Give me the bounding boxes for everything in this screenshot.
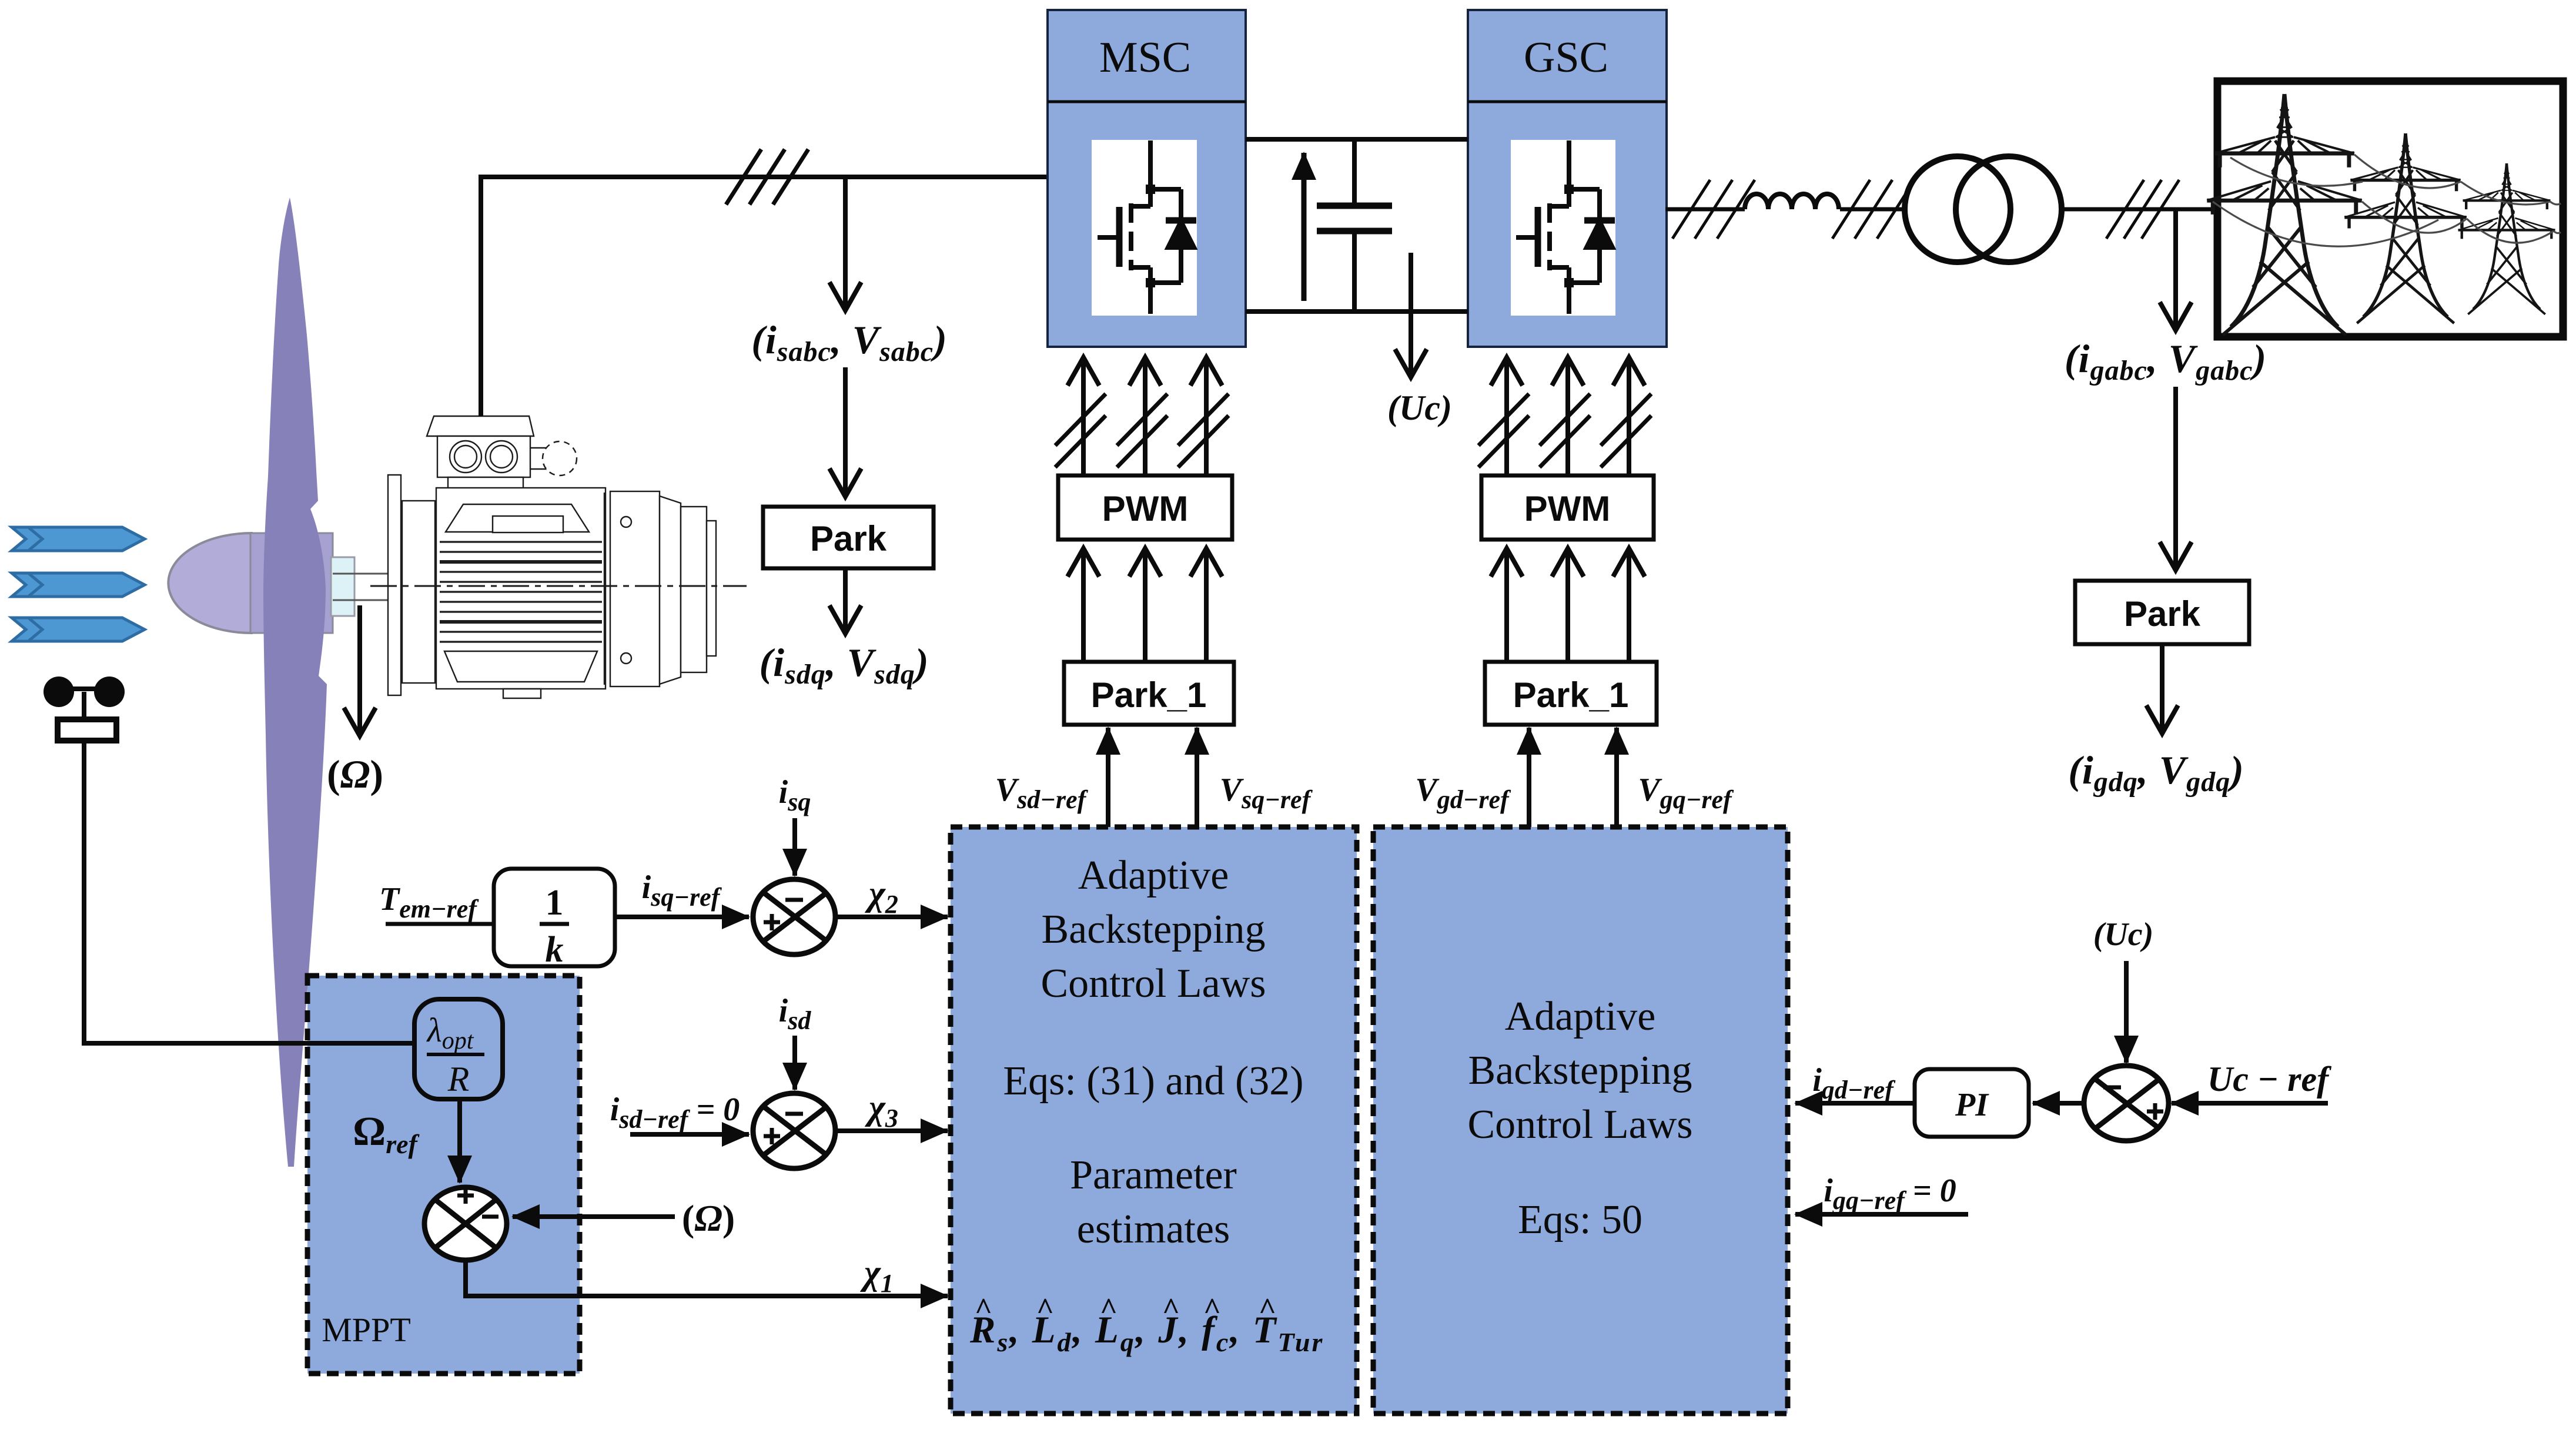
wire chi1: [466, 1260, 948, 1296]
svg-text:Vgq−ref: Vgq−ref: [1638, 772, 1734, 814]
GSC converter block: [1468, 10, 1667, 347]
grid pylon 3: [2458, 163, 2555, 314]
MSC converter block: [1048, 10, 1246, 347]
svg-text:MPPT: MPPT: [322, 1311, 411, 1349]
svg-text:^: ^: [1036, 1292, 1054, 1326]
hub: [250, 533, 333, 633]
lambda/R block: [414, 999, 503, 1099]
wire omega to sum: [513, 1214, 675, 1219]
svg-text:1: 1: [546, 883, 564, 923]
wire Uc to sum: [2124, 961, 2129, 1063]
wire Park down: [843, 568, 848, 634]
Vsq-ref line: [1195, 728, 1199, 827]
gate arrows GSC: [1478, 357, 1651, 475]
Park_1 to PWM arrows MSC: [1083, 548, 1206, 662]
slash marks a: [1672, 180, 1755, 239]
Park box (stator): [763, 507, 934, 568]
wire PI to box: [1795, 1101, 1915, 1106]
Vgd-ref line: [1527, 728, 1531, 827]
line inductor: [1745, 194, 1839, 209]
svg-text:estimates: estimates: [1077, 1207, 1230, 1252]
shaft block: [331, 557, 354, 616]
sum junction chi2: [753, 879, 835, 955]
anemometer: [44, 677, 125, 741]
ABC machine-side dashed box: [951, 827, 1357, 1414]
svg-text:Vsd−ref: Vsd−ref: [995, 772, 1089, 814]
generator G1: [370, 416, 747, 698]
svg-text:^: ^: [975, 1292, 992, 1326]
svg-text:^: ^: [1162, 1292, 1180, 1326]
wire isd to sum: [792, 1036, 797, 1090]
DC bus bottom rail: [1246, 309, 1468, 314]
svg-text:k: k: [546, 930, 564, 970]
svg-text:χ2: χ2: [865, 874, 898, 919]
MPPT dashed box: [307, 976, 580, 1374]
svg-text:(igdq, Vgdq): (igdq, Vgdq): [2068, 748, 2244, 798]
svg-text:Control Laws: Control Laws: [1467, 1102, 1692, 1147]
svg-text:igd−ref: igd−ref: [1812, 1062, 1896, 1104]
DC bus top rail: [1246, 137, 1468, 142]
PI block: [1915, 1069, 2029, 1137]
Park_1 box GSC: [1485, 662, 1657, 725]
Park_1 to PWM arrows GSC: [1507, 548, 1629, 662]
sum junction chi3: [753, 1093, 835, 1168]
ABC grid-side dashed box: [1373, 827, 1788, 1414]
wire sum to PI: [2033, 1101, 2083, 1106]
transformer: [1905, 156, 2010, 262]
svg-text:(Uc): (Uc): [2093, 916, 2154, 953]
wind arrow 2: [12, 573, 145, 597]
svg-text:Park_1: Park_1: [1091, 675, 1207, 715]
wire isq to sum: [792, 818, 797, 876]
svg-text:(igabc, Vgabc): (igabc, Vgabc): [2065, 336, 2267, 386]
svg-text:PWM: PWM: [1524, 489, 1611, 528]
turbine blade: [263, 197, 327, 1167]
sum junction MPPT: [424, 1187, 507, 1260]
svg-text:GSC: GSC: [1524, 34, 1608, 82]
catenary wires: [2213, 155, 2561, 246]
wire chi2 out: [835, 915, 948, 919]
svg-text:Backstepping: Backstepping: [1041, 907, 1265, 952]
svg-text:MSC: MSC: [1099, 34, 1191, 82]
svg-text:igq−ref = 0: igq−ref = 0: [1824, 1173, 1956, 1215]
wire anemometer to MPPT: [84, 741, 414, 1043]
svg-text:Uc − ref: Uc − ref: [2207, 1060, 2331, 1099]
wire Tem-ref: [386, 922, 494, 926]
wire Uc-ref to sum: [2172, 1101, 2328, 1106]
svg-text:(isdq, Vsdq): (isdq, Vsdq): [760, 640, 929, 690]
IGBT GSC: [1516, 140, 1615, 314]
svg-text:^: ^: [1100, 1292, 1118, 1326]
grid pylon 2: [2344, 133, 2466, 323]
svg-text:(Ω): (Ω): [327, 752, 383, 796]
svg-text:R: R: [447, 1060, 470, 1099]
svg-text:Parameter: Parameter: [1070, 1153, 1237, 1198]
wire to Park grid: [2173, 387, 2178, 570]
stator wire: [481, 177, 1048, 416]
grid tap arrow: [2173, 209, 2178, 330]
DC voltage up arrow: [1302, 153, 1307, 301]
Park_1 box MSC: [1064, 662, 1234, 725]
wire isq-ref to sum: [615, 915, 749, 919]
svg-text:Backstepping: Backstepping: [1468, 1048, 1692, 1093]
svg-text:(Ω): (Ω): [682, 1197, 735, 1239]
svg-text:Tem−ref: Tem−ref: [379, 881, 479, 923]
grid pylon 1: [2207, 94, 2361, 335]
svg-text:isq−ref: isq−ref: [642, 869, 722, 912]
svg-text:isd: isd: [779, 993, 812, 1035]
wind arrow 3: [12, 618, 145, 641]
3-phase slash marks: [726, 149, 808, 205]
wire isd-ref to sum: [630, 1132, 749, 1137]
sum junction Uc: [2084, 1066, 2169, 1141]
wind arrow 1: [12, 527, 145, 551]
nose cone: [168, 533, 252, 633]
PWM box GSC: [1481, 475, 1654, 540]
svg-text:PI: PI: [1955, 1087, 1989, 1123]
wire lambda to sum: [457, 1099, 462, 1183]
svg-text:isd−ref = 0: isd−ref = 0: [610, 1091, 740, 1134]
Uc probe arrow: [1409, 253, 1413, 377]
svg-text:Park: Park: [2124, 594, 2201, 634]
wire label to Park: [843, 367, 848, 497]
svg-text:isq: isq: [779, 774, 811, 816]
svg-text:Control Laws: Control Laws: [1041, 961, 1266, 1006]
grid wire segments: [1665, 207, 2221, 212]
svg-text:Adaptive: Adaptive: [1505, 994, 1656, 1039]
measurement tap arrow: [843, 177, 848, 310]
wire Park grid down: [2160, 644, 2164, 734]
svg-text:χ3: χ3: [865, 1088, 898, 1133]
wire chi3 out: [835, 1128, 948, 1133]
svg-text:PWM: PWM: [1102, 489, 1189, 528]
svg-text:Park_1: Park_1: [1513, 675, 1629, 715]
gain block 1/k: [494, 869, 615, 970]
PWM box MSC: [1058, 475, 1232, 540]
IGBT MSC: [1098, 140, 1196, 314]
omega arrow: [357, 605, 362, 736]
svg-text:^: ^: [1203, 1292, 1221, 1326]
slash marks c: [2106, 180, 2179, 239]
DC-link capacitor: [1317, 139, 1392, 312]
svg-text:Adaptive: Adaptive: [1078, 853, 1229, 898]
svg-text:Eqs: 50: Eqs: 50: [1518, 1197, 1642, 1243]
svg-text:(Uc): (Uc): [1387, 389, 1452, 427]
shaft lines: [333, 574, 389, 600]
svg-text:Vgd−ref: Vgd−ref: [1415, 772, 1511, 814]
grid box: [2217, 81, 2563, 337]
svg-text:Vsq−ref: Vsq−ref: [1220, 772, 1313, 814]
Vsd-ref line: [1106, 728, 1110, 827]
svg-text:Park: Park: [810, 519, 887, 558]
svg-text:(isabc, Vsabc): (isabc, Vsabc): [751, 317, 948, 367]
slash marks b: [1832, 180, 1915, 239]
svg-text:^: ^: [1259, 1292, 1276, 1326]
gate arrows MSC: [1055, 357, 1229, 475]
Vgq-ref line: [1614, 728, 1619, 827]
svg-text:Eqs: (31) and (32): Eqs: (31) and (32): [1003, 1059, 1303, 1104]
wire igq-ref to box: [1795, 1212, 1968, 1217]
Park box (grid): [2075, 581, 2249, 644]
svg-text:χ1: χ1: [860, 1253, 894, 1298]
